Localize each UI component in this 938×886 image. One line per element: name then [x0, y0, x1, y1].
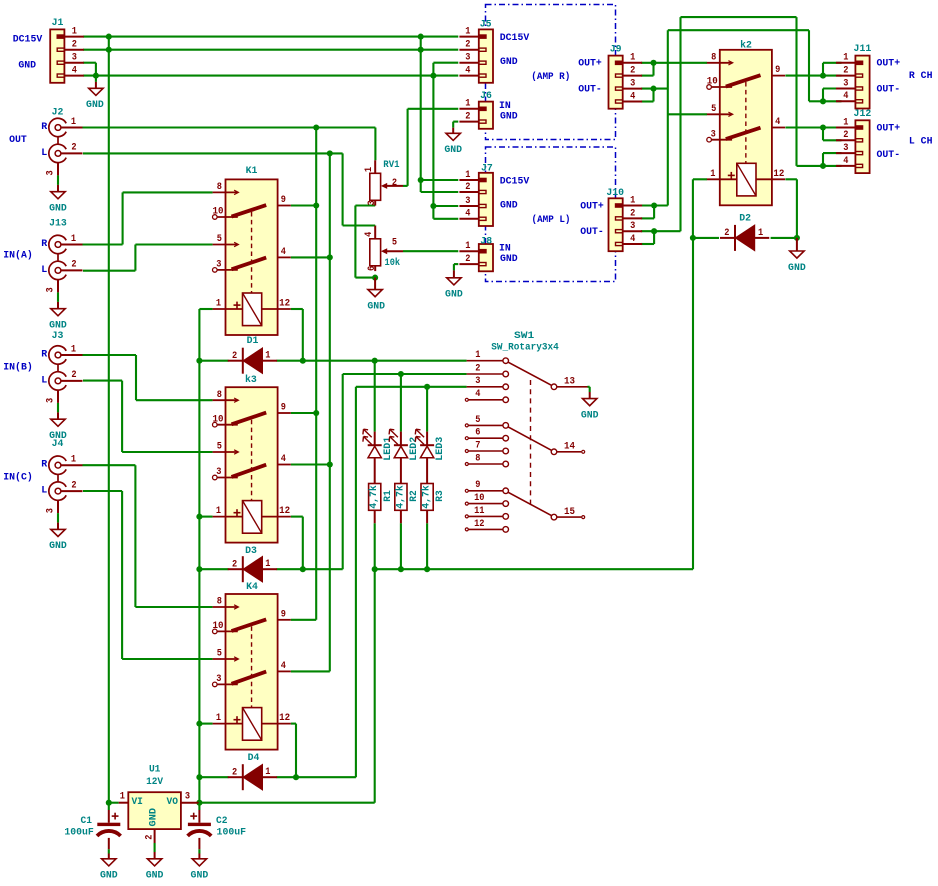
wire	[692, 179, 694, 238]
wire	[426, 387, 428, 432]
wire	[403, 250, 458, 252]
wire	[134, 465, 136, 607]
svg-text:R: R	[41, 460, 47, 471]
ground J3	[49, 412, 67, 442]
svg-text:LED2: LED2	[409, 437, 420, 461]
svg-text:3: 3	[711, 129, 716, 140]
SW1 arm pin 13	[508, 362, 587, 389]
wire	[808, 30, 810, 101]
J3 pin numbers	[46, 344, 77, 403]
svg-text:9: 9	[281, 403, 286, 414]
svg-text:2: 2	[232, 351, 237, 362]
connector J9	[609, 56, 643, 109]
connector J10	[609, 198, 643, 251]
connector J8	[459, 244, 493, 271]
junction	[327, 254, 333, 260]
wire	[653, 231, 655, 244]
wire	[641, 88, 668, 90]
junction	[196, 800, 202, 806]
wire	[302, 517, 304, 570]
svg-text:1: 1	[710, 169, 715, 180]
svg-text:R3: R3	[435, 490, 446, 502]
wire	[408, 108, 459, 110]
svg-text:IN(A): IN(A)	[3, 250, 33, 262]
wire	[823, 139, 842, 141]
wire	[822, 63, 824, 76]
wire	[83, 152, 343, 154]
wire	[354, 206, 356, 278]
svg-text:J2: J2	[52, 108, 64, 119]
svg-text:10: 10	[474, 493, 484, 504]
label R1	[383, 490, 394, 502]
wire	[342, 374, 344, 569]
wire	[588, 386, 590, 388]
k3 pin numbers	[213, 390, 291, 517]
wire	[785, 178, 797, 180]
svg-text:9: 9	[281, 195, 286, 206]
svg-text:13: 13	[564, 377, 575, 388]
ground SW1 pin13	[581, 392, 599, 421]
wire	[432, 63, 434, 219]
wire	[823, 165, 842, 167]
svg-text:J3: J3	[52, 331, 64, 342]
svg-text:1: 1	[120, 792, 125, 803]
junction	[327, 150, 333, 156]
wire	[375, 568, 693, 570]
wire	[822, 128, 824, 141]
wire	[652, 89, 654, 102]
svg-text:4: 4	[475, 389, 480, 400]
svg-text:VO: VO	[167, 797, 179, 808]
svg-text:GND: GND	[500, 112, 518, 123]
diode D2	[720, 225, 769, 251]
wire	[123, 191, 213, 193]
ground D2	[788, 238, 806, 274]
wire	[83, 464, 136, 466]
svg-text:D1: D1	[247, 336, 259, 347]
svg-text:LED3: LED3	[435, 437, 446, 461]
wire J2 pin3 down	[57, 163, 59, 176]
wire	[83, 75, 458, 77]
svg-text:5: 5	[217, 234, 222, 245]
wire	[407, 109, 409, 186]
svg-text:2: 2	[144, 835, 155, 840]
J1 pin numbers	[72, 27, 77, 77]
wire	[797, 165, 824, 167]
svg-text:GND: GND	[86, 100, 104, 111]
svg-text:3: 3	[630, 221, 635, 232]
svg-text:R: R	[41, 350, 47, 361]
wire	[433, 205, 458, 207]
svg-text:5: 5	[475, 415, 480, 426]
wire	[771, 237, 797, 239]
J7 pin numbers	[465, 170, 470, 220]
connector J4 jack R	[49, 456, 83, 474]
wire	[420, 37, 422, 192]
svg-text:OUT: OUT	[9, 135, 27, 146]
connector J13 jack R	[49, 235, 83, 253]
wire	[329, 153, 331, 671]
J6 pin numbers	[465, 99, 470, 123]
svg-text:1: 1	[216, 713, 221, 724]
svg-text:3: 3	[465, 196, 470, 207]
wire	[374, 224, 376, 227]
wire	[343, 224, 376, 226]
svg-text:12: 12	[279, 713, 290, 724]
SW1 pin numbers	[474, 350, 484, 530]
wire	[83, 490, 122, 492]
junction	[106, 34, 112, 40]
J9 pin numbers	[630, 53, 635, 103]
ground C1	[100, 854, 118, 882]
wire	[291, 619, 316, 621]
wire	[83, 380, 122, 382]
svg-text:3: 3	[72, 53, 77, 64]
svg-text:2: 2	[71, 370, 76, 381]
svg-text:1: 1	[71, 455, 76, 466]
svg-text:J7: J7	[481, 164, 493, 175]
svg-text:4: 4	[630, 91, 635, 102]
svg-text:2: 2	[71, 143, 76, 154]
junction	[196, 721, 202, 727]
wire	[355, 204, 375, 206]
svg-text:2: 2	[465, 182, 470, 193]
wire	[291, 204, 316, 206]
svg-text:10: 10	[213, 207, 224, 218]
svg-text:L: L	[41, 486, 47, 497]
wire	[823, 62, 842, 64]
wire	[692, 238, 694, 569]
svg-text:1: 1	[216, 506, 221, 517]
svg-text:LED1: LED1	[383, 437, 394, 461]
svg-text:12: 12	[773, 169, 784, 180]
svg-text:3: 3	[185, 792, 190, 803]
wire	[199, 802, 375, 804]
J11 pin numbers	[843, 53, 848, 102]
junction	[398, 371, 404, 377]
svg-text:GND: GND	[445, 290, 463, 301]
wire	[822, 89, 824, 102]
wire	[343, 373, 467, 375]
junction	[300, 566, 306, 572]
wire	[641, 75, 654, 77]
wire	[136, 399, 213, 401]
wire	[374, 128, 376, 161]
svg-text:OUT-: OUT-	[580, 227, 604, 238]
svg-text:K4: K4	[246, 582, 258, 593]
svg-text:3: 3	[843, 143, 848, 154]
junction	[196, 566, 202, 572]
wire	[122, 451, 213, 453]
wire	[374, 569, 376, 803]
label LED1	[383, 437, 394, 461]
svg-text:1: 1	[72, 27, 77, 38]
svg-text:1: 1	[216, 299, 221, 310]
wire	[109, 802, 119, 804]
svg-text:10: 10	[707, 77, 718, 88]
wire	[291, 256, 330, 258]
wire	[121, 491, 123, 659]
svg-text:GND: GND	[500, 57, 518, 68]
svg-text:100uF: 100uF	[217, 827, 247, 838]
svg-text:GND: GND	[788, 263, 806, 274]
svg-text:6: 6	[367, 266, 378, 271]
wire	[291, 308, 303, 310]
svg-text:R CH: R CH	[909, 71, 933, 82]
ground C2	[191, 854, 209, 882]
junction	[820, 73, 826, 79]
wire	[641, 204, 668, 206]
svg-text:1: 1	[630, 53, 635, 64]
svg-text:4,7k: 4,7k	[421, 485, 433, 509]
svg-text:GND: GND	[367, 301, 385, 312]
wire J13 pin3 down	[57, 280, 59, 293]
wire	[199, 308, 212, 310]
resistor R2	[395, 484, 407, 524]
svg-text:1: 1	[71, 117, 76, 128]
wire	[199, 568, 228, 570]
wire	[681, 16, 797, 18]
junction	[430, 203, 436, 209]
svg-text:2: 2	[72, 40, 77, 51]
wire	[668, 29, 809, 31]
svg-text:k3: k3	[245, 374, 257, 386]
wire	[641, 62, 707, 64]
junction	[820, 163, 826, 169]
D3 pin numbers	[232, 559, 270, 570]
svg-text:12V: 12V	[146, 777, 163, 788]
junction	[424, 566, 430, 572]
svg-text:8: 8	[217, 597, 222, 608]
svg-text:4: 4	[465, 209, 470, 220]
wire J13 shield link	[57, 254, 59, 262]
wire	[95, 63, 97, 76]
svg-text:1: 1	[758, 228, 763, 239]
svg-text:GND: GND	[18, 61, 36, 72]
junction	[372, 566, 378, 572]
junction	[293, 774, 299, 780]
junction	[313, 410, 319, 416]
svg-text:DC15V: DC15V	[500, 176, 530, 187]
svg-text:8: 8	[711, 52, 716, 63]
svg-text:J10: J10	[606, 188, 624, 199]
rotary switch SW1	[465, 358, 508, 532]
svg-text:1: 1	[843, 117, 848, 128]
svg-text:OUT+: OUT+	[877, 59, 901, 70]
diode D4	[228, 764, 277, 790]
wire	[453, 264, 455, 270]
diode D1	[228, 348, 277, 374]
svg-text:4: 4	[775, 117, 780, 128]
svg-text:8: 8	[217, 182, 222, 193]
wire	[135, 355, 137, 400]
svg-text:12: 12	[279, 299, 290, 310]
svg-text:(AMP R): (AMP R)	[531, 71, 570, 83]
svg-text:DC15V: DC15V	[500, 33, 530, 44]
svg-text:GND: GND	[149, 808, 160, 827]
svg-text:2: 2	[232, 559, 237, 570]
svg-text:3: 3	[46, 287, 57, 292]
svg-text:100uF: 100uF	[64, 827, 94, 838]
connector J1	[50, 29, 84, 82]
svg-text:GND: GND	[500, 254, 518, 265]
svg-text:3: 3	[216, 674, 221, 685]
junction	[327, 461, 333, 467]
svg-text:J6: J6	[480, 91, 492, 102]
svg-text:D4: D4	[248, 753, 260, 764]
junction	[650, 60, 656, 66]
wire	[277, 776, 356, 778]
wire	[589, 387, 591, 392]
svg-text:5: 5	[217, 442, 222, 453]
connector J12	[836, 120, 870, 173]
wire J3 pin3 down	[57, 390, 59, 403]
SW1 arm pin 14	[508, 427, 585, 455]
wire	[668, 113, 707, 115]
ground J1	[86, 76, 104, 112]
connector J2 jack R	[49, 118, 83, 136]
relay k3	[213, 387, 291, 542]
svg-text:L CH: L CH	[909, 136, 933, 147]
svg-text:DC15V: DC15V	[13, 35, 43, 46]
SW1 mechanical link	[530, 380, 532, 505]
wire	[641, 243, 654, 245]
junction	[106, 800, 112, 806]
svg-text:10k: 10k	[385, 257, 401, 269]
svg-text:OUT+: OUT+	[580, 202, 604, 213]
ground J13	[49, 302, 67, 332]
svg-text:L: L	[41, 148, 47, 159]
label R2 value 4,7k	[394, 485, 406, 509]
svg-text:1: 1	[71, 234, 76, 245]
svg-text:1: 1	[465, 170, 470, 181]
wire	[121, 381, 123, 452]
junction	[313, 124, 319, 130]
wire	[135, 243, 212, 245]
svg-text:2: 2	[71, 480, 76, 491]
svg-text:4: 4	[281, 661, 286, 672]
wire	[277, 360, 467, 362]
svg-text:K1: K1	[246, 166, 258, 177]
svg-text:SW_Rotary3x4: SW_Rotary3x4	[491, 342, 559, 353]
label R2	[409, 490, 420, 502]
svg-text:12: 12	[279, 506, 290, 517]
svg-text:1: 1	[364, 167, 375, 172]
junction	[196, 514, 202, 520]
connector J4 jack L	[49, 482, 83, 500]
wire	[122, 192, 124, 244]
junction	[820, 98, 826, 104]
RV1 pin numbers	[364, 167, 397, 206]
wire	[641, 217, 654, 219]
wire	[426, 523, 428, 569]
wire	[823, 87, 842, 89]
wire	[277, 568, 343, 570]
k2 pin numbers	[707, 52, 785, 179]
svg-text:2: 2	[475, 363, 480, 374]
svg-text:GND: GND	[100, 871, 118, 882]
svg-text:3: 3	[843, 78, 848, 89]
wire	[400, 523, 402, 569]
wire	[421, 179, 459, 181]
J12 pin numbers	[843, 117, 848, 166]
junction	[430, 73, 436, 79]
ground RV1	[367, 278, 385, 313]
svg-text:GND: GND	[500, 201, 518, 212]
wire	[355, 387, 357, 777]
relay k2	[707, 50, 785, 206]
label R3	[435, 490, 446, 502]
svg-text:4,7k: 4,7k	[394, 485, 406, 509]
junction	[93, 73, 99, 79]
connector J7	[459, 173, 493, 226]
junction	[300, 358, 306, 364]
svg-text:1: 1	[630, 195, 635, 206]
wire J2 shield link	[57, 137, 59, 145]
wire	[356, 386, 467, 388]
U1 pin names	[131, 797, 178, 826]
svg-text:GND: GND	[49, 204, 67, 215]
connector J3 jack L	[49, 372, 83, 390]
wire	[433, 62, 458, 64]
svg-text:IN: IN	[499, 244, 511, 255]
wire	[291, 463, 330, 465]
capacitor C2	[188, 803, 212, 854]
wire	[693, 178, 707, 180]
wire	[374, 523, 376, 569]
ground J2	[49, 185, 67, 215]
svg-text:C1: C1	[81, 816, 93, 827]
wire J4 pin3 down	[57, 500, 59, 513]
wire	[199, 360, 228, 362]
wire	[315, 128, 317, 620]
wire	[796, 179, 798, 238]
svg-text:1: 1	[465, 27, 470, 38]
svg-text:3: 3	[216, 467, 221, 478]
connector J6	[459, 102, 493, 129]
svg-text:C2: C2	[216, 816, 228, 827]
wire J4 shield link	[57, 474, 59, 482]
svg-text:14: 14	[564, 442, 575, 453]
svg-text:1: 1	[843, 53, 848, 64]
junction	[372, 358, 378, 364]
svg-text:GND: GND	[191, 871, 209, 882]
SW1 arm pin 15	[508, 492, 585, 520]
wire	[453, 121, 458, 123]
svg-text:k2: k2	[740, 39, 752, 51]
svg-text:4: 4	[364, 232, 375, 237]
regulator U1	[119, 792, 199, 843]
svg-text:4: 4	[630, 234, 635, 245]
junction	[196, 774, 202, 780]
svg-text:2: 2	[843, 66, 848, 77]
svg-text:2: 2	[465, 254, 470, 265]
wire	[291, 723, 296, 725]
junction	[650, 86, 656, 92]
svg-text:OUT-: OUT-	[877, 150, 901, 161]
svg-text:R1: R1	[383, 490, 394, 502]
J13 pin numbers	[46, 234, 77, 293]
diode D3	[228, 556, 277, 582]
svg-text:OUT-: OUT-	[578, 85, 602, 96]
junction	[398, 566, 404, 572]
svg-text:3: 3	[465, 53, 470, 64]
LED LED2	[389, 429, 408, 483]
wire	[641, 100, 654, 102]
svg-text:L: L	[41, 265, 47, 276]
junction	[196, 358, 202, 364]
wire	[302, 309, 304, 361]
